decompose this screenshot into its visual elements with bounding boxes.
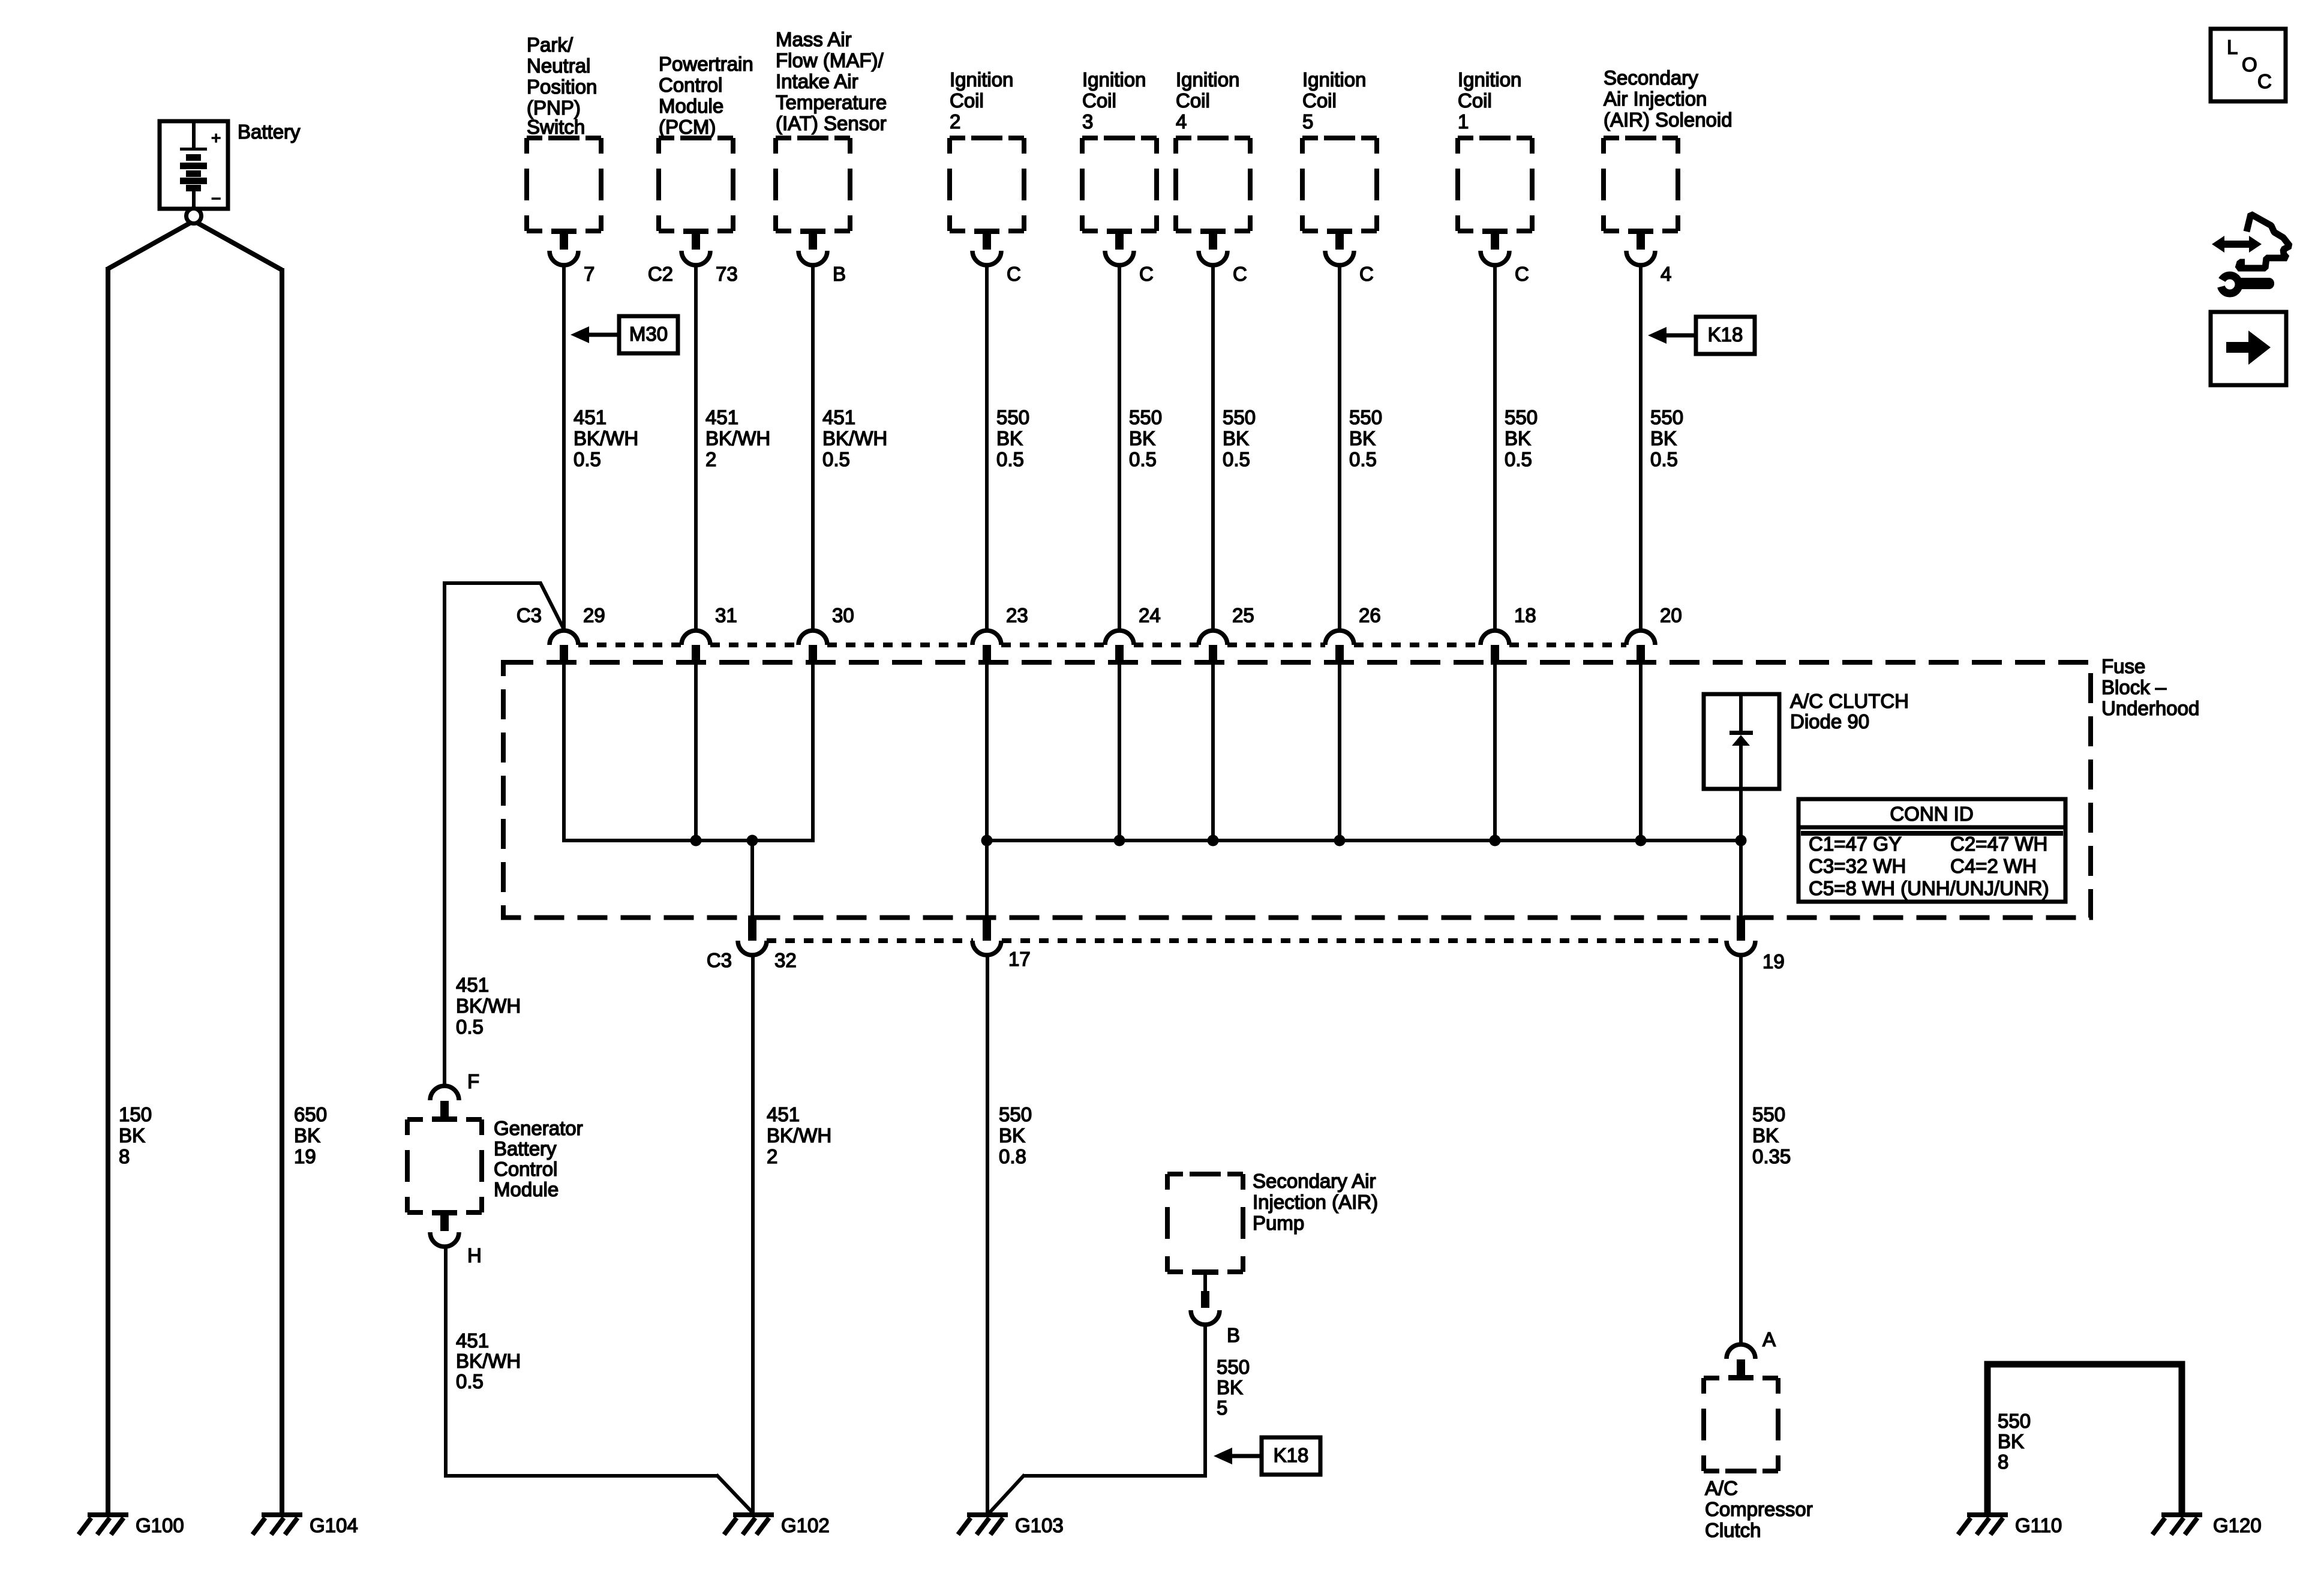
svg-text:Pump: Pump	[1253, 1212, 1304, 1234]
svg-text:BK: BK	[1129, 427, 1155, 449]
svg-text:150: 150	[119, 1103, 152, 1125]
svg-text:G102: G102	[781, 1514, 830, 1536]
svg-text:2: 2	[767, 1145, 777, 1167]
svg-text:Control: Control	[659, 74, 722, 96]
svg-text:BK: BK	[1217, 1376, 1243, 1398]
svg-text:BK/WH: BK/WH	[456, 995, 521, 1017]
svg-text:BK: BK	[1752, 1124, 1779, 1146]
svg-text:C: C	[1233, 263, 1247, 285]
svg-text:4: 4	[1661, 263, 1671, 285]
svg-text:451: 451	[705, 406, 738, 428]
svg-text:BK/WH: BK/WH	[705, 427, 770, 449]
svg-text:C: C	[1515, 263, 1529, 285]
svg-text:550: 550	[1129, 406, 1162, 428]
svg-text:C5=8 WH (UNH/UNJ/UNR): C5=8 WH (UNH/UNJ/UNR)	[1809, 877, 2049, 899]
svg-text:C4=2 WH: C4=2 WH	[1950, 855, 2037, 877]
svg-text:C3: C3	[517, 604, 542, 626]
svg-text:0.5: 0.5	[1349, 448, 1377, 470]
svg-text:17: 17	[1008, 948, 1031, 970]
svg-text:C2=47 WH: C2=47 WH	[1950, 833, 2047, 855]
svg-text:550: 550	[1217, 1356, 1250, 1378]
svg-text:0.5: 0.5	[822, 448, 850, 470]
svg-text:Block –: Block –	[2101, 676, 2167, 698]
svg-text:550: 550	[1752, 1103, 1785, 1125]
svg-text:451: 451	[767, 1103, 800, 1125]
svg-text:Coil: Coil	[1082, 89, 1116, 112]
svg-text:G100: G100	[136, 1514, 184, 1536]
svg-text:29: 29	[583, 604, 605, 626]
svg-text:0.5: 0.5	[1650, 448, 1678, 470]
svg-text:BK: BK	[1650, 427, 1677, 449]
svg-text:(IAT) Sensor: (IAT) Sensor	[776, 112, 887, 134]
svg-text:Diode 90: Diode 90	[1790, 710, 1869, 733]
svg-text:19: 19	[1762, 950, 1785, 972]
svg-text:5: 5	[1302, 110, 1313, 133]
svg-text:BK: BK	[1505, 427, 1531, 449]
svg-text:7: 7	[584, 263, 594, 285]
svg-text:Coil: Coil	[1176, 89, 1210, 112]
svg-text:C3: C3	[707, 949, 732, 971]
svg-text:3: 3	[1082, 110, 1093, 133]
svg-text:BK: BK	[999, 1124, 1025, 1146]
svg-text:24: 24	[1139, 604, 1161, 626]
svg-text:(PCM): (PCM)	[659, 116, 716, 138]
svg-text:Park/: Park/	[527, 34, 574, 56]
svg-text:CONN ID: CONN ID	[1890, 803, 1973, 825]
svg-text:0.5: 0.5	[1505, 448, 1532, 470]
svg-text:C: C	[1139, 263, 1154, 285]
svg-text:550: 550	[1505, 406, 1538, 428]
svg-text:20: 20	[1660, 604, 1682, 626]
svg-text:A/C CLUTCH: A/C CLUTCH	[1790, 690, 1909, 712]
svg-text:25: 25	[1232, 604, 1254, 626]
svg-text:4: 4	[1176, 110, 1187, 133]
svg-text:550: 550	[1650, 406, 1683, 428]
svg-text:G104: G104	[310, 1514, 358, 1536]
svg-text:550: 550	[1998, 1410, 2031, 1432]
svg-text:31: 31	[715, 604, 737, 626]
svg-text:23: 23	[1006, 604, 1028, 626]
svg-text:550: 550	[996, 406, 1029, 428]
svg-text:0.5: 0.5	[574, 448, 601, 470]
svg-text:C1=47 GY: C1=47 GY	[1809, 833, 1902, 855]
svg-text:Ignition: Ignition	[1176, 68, 1239, 91]
svg-text:Secondary: Secondary	[1604, 67, 1698, 89]
svg-text:5: 5	[1217, 1397, 1227, 1419]
svg-text:550: 550	[1223, 406, 1256, 428]
svg-text:0.5: 0.5	[456, 1016, 484, 1038]
svg-text:73: 73	[716, 263, 738, 285]
svg-text:K18: K18	[1708, 323, 1743, 346]
svg-text:Module: Module	[494, 1178, 559, 1200]
svg-text:Ignition: Ignition	[1302, 68, 1366, 91]
svg-text:Powertrain: Powertrain	[659, 53, 753, 75]
svg-text:Air Injection: Air Injection	[1604, 88, 1707, 110]
svg-text:32: 32	[774, 949, 797, 971]
svg-text:BK/WH: BK/WH	[822, 427, 887, 449]
svg-text:C: C	[2257, 70, 2272, 92]
svg-text:0.5: 0.5	[1223, 448, 1250, 470]
svg-text:19: 19	[294, 1145, 316, 1167]
svg-text:0.5: 0.5	[1129, 448, 1157, 470]
svg-text:BK: BK	[1998, 1430, 2024, 1452]
svg-text:Neutral: Neutral	[527, 55, 590, 77]
svg-text:O: O	[2242, 53, 2257, 76]
svg-text:2: 2	[950, 110, 960, 133]
svg-text:Mass Air: Mass Air	[776, 28, 852, 50]
svg-text:Coil: Coil	[1302, 89, 1337, 112]
svg-text:Control: Control	[494, 1158, 557, 1180]
svg-text:0.5: 0.5	[996, 448, 1024, 470]
svg-text:Battery: Battery	[494, 1137, 557, 1160]
svg-text:C3=32 WH: C3=32 WH	[1809, 855, 1906, 877]
svg-text:451: 451	[456, 974, 489, 996]
svg-text:Ignition: Ignition	[1458, 68, 1521, 91]
svg-text:8: 8	[1998, 1451, 2008, 1473]
svg-text:L: L	[2227, 36, 2238, 58]
svg-text:Ignition: Ignition	[950, 68, 1013, 91]
svg-text:Intake Air: Intake Air	[776, 70, 858, 92]
svg-text:1: 1	[1458, 110, 1469, 133]
svg-text:A: A	[1762, 1328, 1776, 1350]
svg-text:Secondary Air: Secondary Air	[1253, 1170, 1376, 1192]
svg-text:Battery: Battery	[238, 121, 301, 143]
svg-text:Fuse: Fuse	[2101, 655, 2145, 677]
svg-text:BK: BK	[1223, 427, 1249, 449]
svg-text:BK/WH: BK/WH	[456, 1350, 521, 1372]
svg-text:Ignition: Ignition	[1082, 68, 1146, 91]
svg-text:Coil: Coil	[950, 89, 984, 112]
svg-text:Position: Position	[527, 76, 597, 98]
svg-text:−: −	[211, 189, 221, 208]
svg-text:B: B	[833, 263, 846, 285]
svg-text:Compressor: Compressor	[1705, 1498, 1813, 1520]
svg-text:BK: BK	[1349, 427, 1376, 449]
svg-text:BK/WH: BK/WH	[767, 1124, 831, 1146]
svg-text:8: 8	[119, 1145, 130, 1167]
svg-text:BK: BK	[294, 1124, 320, 1146]
svg-text:C: C	[1007, 263, 1021, 285]
svg-text:(AIR) Solenoid: (AIR) Solenoid	[1604, 109, 1733, 131]
svg-text:Generator: Generator	[494, 1117, 583, 1139]
svg-text:+: +	[211, 128, 221, 147]
svg-text:0.5: 0.5	[456, 1370, 484, 1392]
svg-text:26: 26	[1359, 604, 1381, 626]
svg-text:F: F	[467, 1070, 479, 1092]
svg-text:G103: G103	[1015, 1514, 1064, 1536]
svg-text:2: 2	[705, 448, 716, 470]
svg-text:K18: K18	[1274, 1444, 1309, 1466]
svg-text:C2: C2	[648, 263, 673, 285]
svg-text:Module: Module	[659, 95, 723, 117]
svg-text:650: 650	[294, 1103, 327, 1125]
svg-text:451: 451	[822, 406, 855, 428]
svg-text:C: C	[1359, 263, 1374, 285]
svg-text:G110: G110	[2015, 1514, 2062, 1536]
svg-text:BK: BK	[119, 1124, 145, 1146]
svg-text:B: B	[1227, 1324, 1240, 1346]
svg-text:M30: M30	[629, 323, 668, 345]
svg-text:BK: BK	[996, 427, 1023, 449]
svg-text:G120: G120	[2213, 1514, 2262, 1536]
svg-text:Flow (MAF)/: Flow (MAF)/	[776, 49, 884, 71]
svg-text:451: 451	[456, 1329, 489, 1352]
svg-text:A/C: A/C	[1705, 1477, 1738, 1499]
svg-text:30: 30	[832, 604, 854, 626]
svg-text:H: H	[467, 1244, 482, 1266]
svg-text:Injection (AIR): Injection (AIR)	[1253, 1191, 1378, 1213]
svg-text:0.35: 0.35	[1752, 1145, 1791, 1167]
svg-text:Underhood: Underhood	[2101, 697, 2199, 719]
svg-text:550: 550	[1349, 406, 1382, 428]
svg-text:Temperature: Temperature	[776, 91, 887, 113]
svg-text:Clutch: Clutch	[1705, 1519, 1761, 1541]
svg-text:BK/WH: BK/WH	[574, 427, 638, 449]
svg-text:451: 451	[574, 406, 606, 428]
svg-text:0.8: 0.8	[999, 1145, 1026, 1167]
svg-text:Switch: Switch	[527, 116, 585, 138]
svg-text:Coil: Coil	[1458, 89, 1492, 112]
svg-text:550: 550	[999, 1103, 1032, 1125]
svg-text:18: 18	[1514, 604, 1536, 626]
